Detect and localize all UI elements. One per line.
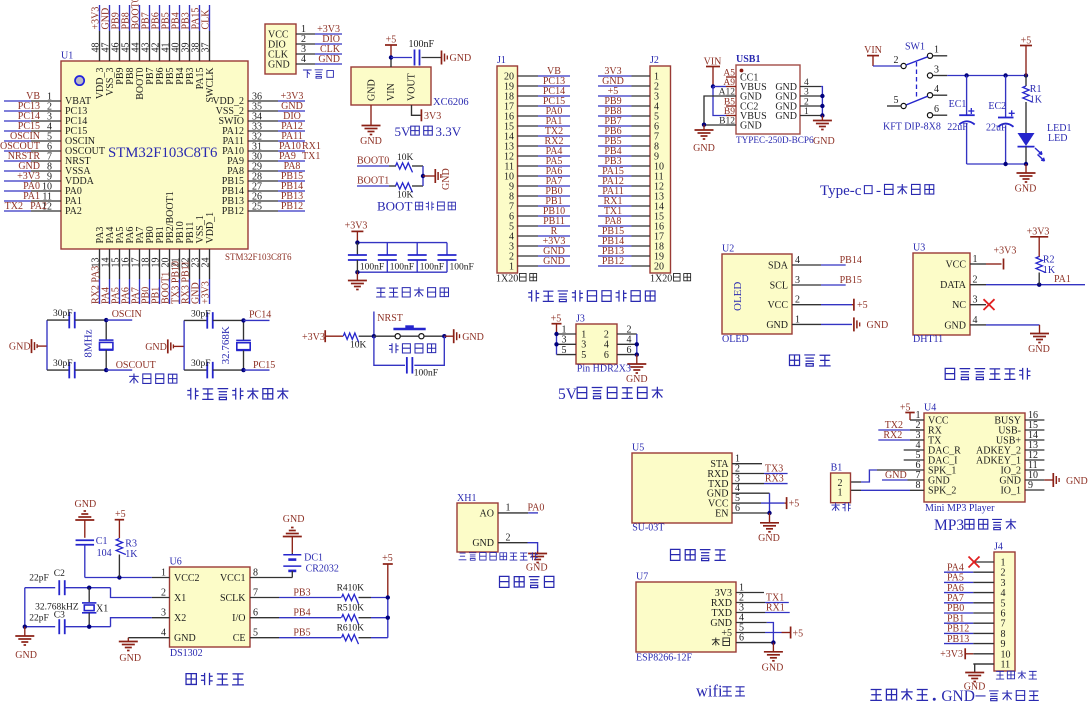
wire left vertical — [46, 320, 48, 370]
svg-text:PB5: PB5 — [293, 628, 310, 639]
ground stem J3 — [636, 355, 638, 364]
U2 pin 2 (VCC) — [767, 295, 821, 311]
svg-text:SCLK: SCLK — [220, 593, 246, 604]
svg-text:+5: +5 — [900, 403, 911, 414]
svg-text:Mini MP3 Player: Mini MP3 Player — [925, 503, 995, 514]
header J2 pin 15 (TX1) — [598, 206, 664, 222]
MCU U1 pin 1 (VBAT) with wire — [4, 91, 91, 107]
header J2 pin 3 (+5) — [598, 86, 659, 102]
svg-text:GND: GND — [762, 663, 784, 674]
capacitor 100nF #3 — [408, 243, 444, 273]
wire VIN — [390, 58, 392, 68]
MCU U1 pin 8 (VSSA) with wire — [4, 161, 91, 177]
ground stem power circuit — [1025, 164, 1027, 173]
svg-text:4: 4 — [301, 54, 306, 65]
svg-text:GND: GND — [693, 143, 715, 154]
ground stem below USB1 left — [703, 125, 705, 130]
ground symbol DHT11 — [1030, 333, 1049, 335]
MCU U1 pin 24 (VDD_1) with wire — [201, 212, 217, 304]
svg-text:30pF: 30pF — [191, 309, 211, 319]
U3 pin 3 (NC) — [952, 295, 986, 311]
svg-text:1K: 1K — [1030, 95, 1043, 106]
svg-text:PA2: PA2 — [30, 201, 47, 212]
svg-text:SPK_2: SPK_2 — [928, 485, 956, 496]
svg-text:100nF: 100nF — [360, 263, 384, 273]
svg-text:1K: 1K — [1043, 265, 1056, 276]
MCU U1 pin 4 (PC15) with wire — [4, 121, 87, 137]
MCU U1 pin 36 (VDD_2) with wire — [212, 91, 305, 107]
header J4 body — [994, 552, 1015, 671]
MCU U1 pin 44 (BOOT0) with wire — [131, 0, 147, 100]
capacitor 100nF #1 — [348, 243, 384, 273]
U7 pin 2 (RXD) — [711, 593, 744, 609]
wire PB14 — [821, 264, 846, 266]
caption 单片机最小系统 — [187, 388, 198, 400]
svg-text:KFT DIP-8X8: KFT DIP-8X8 — [883, 122, 941, 133]
svg-text:4: 4 — [973, 315, 978, 326]
ground port GND at OLED — [821, 323, 852, 325]
svg-text:3V3: 3V3 — [424, 111, 441, 122]
header J2 pin 13 (PA11) — [598, 186, 664, 202]
svg-text:3: 3 — [973, 295, 978, 306]
header J4 pin 6 (PB0) — [944, 603, 1006, 619]
ground symbol J4 — [974, 671, 976, 674]
header J2 pin 10 (PB3) — [598, 156, 664, 172]
LED1 LED — [1018, 133, 1035, 146]
wire U7 pin6 — [736, 642, 773, 644]
svg-text:5: 5 — [894, 95, 899, 106]
wire U5 TXD to RX3 — [732, 483, 764, 485]
svg-text:OLED: OLED — [722, 334, 749, 345]
ground port GND (reset) — [453, 329, 455, 343]
svg-text:CLK: CLK — [201, 9, 212, 30]
sensor U3 DHT11 body — [913, 253, 970, 335]
wire VOUT to 3V3 — [412, 105, 421, 115]
SW1 lever 5-4 — [906, 96, 928, 105]
svg-text:CE: CE — [233, 633, 246, 644]
clock chip U6 DS1302 body — [170, 567, 251, 647]
U3 pin 2 (DATA) — [940, 275, 986, 291]
svg-text:5: 5 — [562, 345, 567, 356]
power rail +5 — [947, 75, 1026, 77]
ground symbol USB1 left — [695, 129, 714, 131]
wire DHT11 GND — [986, 324, 1040, 326]
svg-text:PA2: PA2 — [65, 206, 82, 217]
svg-text:GND: GND — [15, 650, 37, 661]
svg-text:SCL: SCL — [770, 280, 788, 291]
svg-text:30pF: 30pF — [53, 309, 73, 319]
header J2 pin 19 (PB13) — [598, 246, 664, 262]
header J4 pin 3 (PA5) — [944, 573, 1006, 589]
svg-text:10K: 10K — [397, 153, 414, 163]
svg-text:RX2: RX2 — [883, 430, 902, 441]
push button (reset) — [395, 334, 400, 339]
svg-text:100nF: 100nF — [450, 263, 474, 273]
svg-text:U7: U7 — [636, 572, 648, 583]
svg-text:+5: +5 — [857, 300, 868, 311]
U4 pin 14 (USB+) — [996, 430, 1044, 446]
wire left vertical — [183, 320, 185, 370]
svg-text:1X20: 1X20 — [496, 274, 518, 285]
svg-text:GND: GND — [543, 256, 565, 267]
svg-text:VIN: VIN — [864, 45, 882, 56]
wire U4 RX to TX2 — [910, 429, 924, 431]
svg-text:C3: C3 — [54, 611, 65, 621]
svg-text:2: 2 — [795, 295, 800, 306]
ground port GND right of 100nF — [441, 51, 443, 65]
ground symbol below filter caps — [348, 280, 367, 282]
U6 pin 2 (X1) — [161, 588, 186, 604]
header J2 pin 7 (PB6) — [598, 126, 659, 142]
ground below U5 — [769, 513, 771, 522]
svg-text:10K: 10K — [350, 341, 367, 351]
header J2 pin 8 (PB5) — [598, 136, 659, 152]
svg-text:B5: B5 — [724, 98, 735, 108]
MCU U1 pin 46 (PB9) with wire — [111, 5, 127, 85]
svg-text:BOOT1: BOOT1 — [357, 176, 389, 187]
crystal 8MHz — [105, 320, 107, 340]
svg-text:100nF: 100nF — [409, 39, 435, 50]
svg-text:NC: NC — [952, 300, 966, 311]
svg-text:DC1: DC1 — [304, 553, 323, 564]
wire GND A12 B12 — [704, 96, 726, 125]
caption 语音识别 — [670, 549, 679, 560]
svg-text:5V: 5V — [395, 124, 412, 139]
svg-text:DS1302: DS1302 — [170, 648, 203, 659]
caption 触摸按键，GND一端在右侧 — [870, 690, 882, 701]
svg-text:30pF: 30pF — [191, 359, 211, 369]
connector USB1 TYPEC-250D-BCP6 body — [736, 65, 800, 134]
MCU U1 pin 22 (PB11) with wire — [181, 222, 197, 304]
svg-text:ESP8266-12F: ESP8266-12F — [636, 653, 693, 664]
U5 pin 3 (TXD) — [708, 474, 740, 490]
svg-text:R610K: R610K — [337, 624, 365, 634]
svg-text:GND: GND — [268, 59, 290, 70]
MCU U1 pin 14 (PA4) with wire — [101, 227, 117, 304]
wire PB15 — [821, 284, 846, 286]
U4 pin5 stub — [904, 459, 924, 461]
svg-text:U3: U3 — [913, 243, 925, 254]
no-connect X at DHT11 NC — [984, 299, 995, 310]
svg-text:+5: +5 — [721, 628, 732, 639]
wire +5 bus — [387, 598, 389, 638]
svg-text:Pin HDR2X3: Pin HDR2X3 — [577, 364, 631, 375]
svg-text:GND: GND — [174, 633, 196, 644]
svg-text:6: 6 — [604, 350, 609, 361]
caption 单片机引脚外引排针 — [528, 290, 539, 301]
MCU U1 pin 17 (PA7) with wire — [131, 227, 147, 304]
wire node bottom with net OSCOUT — [104, 368, 108, 372]
svg-text:1: 1 — [973, 254, 978, 265]
svg-text:GND: GND — [9, 342, 31, 353]
svg-text:37: 37 — [201, 43, 212, 53]
svg-text:3: 3 — [795, 275, 800, 286]
svg-text:1: 1 — [506, 503, 511, 514]
part value 三杯式风速传感器 — [459, 553, 467, 560]
MCU U1 pin 16 (PA6) with wire — [121, 227, 137, 304]
svg-text:AO: AO — [480, 508, 494, 519]
power port +5 at U4 VCC — [910, 419, 924, 421]
regulator U? XC6206 body — [351, 67, 431, 105]
svg-text:+5: +5 — [115, 509, 126, 520]
wire PB4 with resistor R510K — [250, 604, 388, 624]
MCU U1 pin 23 (VSS_1) with wire — [191, 215, 207, 304]
MCU U1 pin 28 (PB15) with wire — [222, 171, 305, 187]
svg-text:GND: GND — [472, 538, 494, 549]
label 触摸按键 — [996, 671, 1004, 679]
header J2 pin 20 (PB12) — [598, 256, 664, 272]
header J2 pin 17 (PB15) — [598, 226, 664, 242]
caption 温湿度传感器 — [945, 368, 954, 379]
svg-text:GND: GND — [526, 563, 548, 574]
header J1 pin 8 (PB0) — [509, 186, 570, 202]
svg-text:RX3: RX3 — [765, 474, 784, 485]
header J2 pin 18 (PB14) — [598, 236, 664, 252]
wire node top with net OSCIN — [104, 318, 108, 322]
header J1 pin 18 (PC14) — [504, 86, 570, 102]
svg-text:+3V3: +3V3 — [1027, 227, 1050, 238]
header J1 pin 17 (PC15) — [504, 96, 570, 112]
svg-text:2: 2 — [973, 275, 978, 286]
header J1 pin 12 (PA4) — [504, 146, 570, 162]
MCU U1 pin 10 (PA0) with wire — [4, 181, 82, 197]
pin-1 marker circle — [75, 76, 84, 85]
svg-text:GND: GND — [283, 514, 305, 525]
MCU U1 pin 2 (PC13) with wire — [4, 101, 87, 117]
wire U4 TX to RX2 — [910, 439, 924, 441]
svg-text:+3V3: +3V3 — [201, 281, 212, 304]
MCU U1 pin 20 (PB2/BOOT1) with wire — [161, 191, 177, 304]
header J2 pin 11 (PA15) — [598, 166, 664, 182]
MCU U1 pin 48 (VDD_3) with wire — [91, 5, 107, 99]
header J2 pin 6 (PB7) — [598, 116, 659, 132]
svg-text:PA1: PA1 — [1054, 274, 1071, 285]
svg-text:VOUT: VOUT — [407, 73, 418, 101]
U5 pin 2 (RXD) — [707, 464, 740, 480]
header J1 pin 10 (PA6) — [504, 166, 570, 182]
wire J3 left bus — [556, 334, 558, 355]
MCU U1 pin 6 (OSCOUT) with wire — [0, 141, 105, 157]
MCU U1 pin 15 (PA5) with wire — [111, 227, 127, 304]
wire J3 right bus — [636, 334, 638, 355]
SW1 pin 2 terminal — [901, 63, 906, 68]
MCU U1 pin 40 (PB4) with wire — [171, 5, 187, 85]
resistor 10K (BOOT0) — [396, 163, 413, 173]
capacitor 30pF (bottom) — [184, 369, 207, 371]
U4 pin 7 (GND) — [916, 470, 950, 486]
U4 pin 5 (DAC_I) — [916, 450, 958, 466]
USB1 pin 2 (GND) — [775, 98, 821, 113]
svg-text:OSCOUT: OSCOUT — [116, 360, 156, 371]
svg-text:GND: GND — [758, 533, 780, 544]
svg-text:VCC: VCC — [767, 300, 788, 311]
header J3 pin 3 — [557, 335, 587, 351]
svg-text:+5: +5 — [386, 35, 397, 46]
U6 pin 1 (VCC2) — [161, 568, 200, 584]
svg-text:3: 3 — [804, 88, 809, 98]
U7 pin 1 (3V3) — [715, 583, 744, 599]
header J4 pin 5 (PA7) — [944, 593, 1006, 609]
MCU U1 pin 42 (PB6) with wire — [151, 5, 167, 85]
U4 pin 10 (GND) — [999, 470, 1044, 486]
svg-text:C2: C2 — [54, 569, 65, 579]
svg-text:104: 104 — [97, 548, 112, 559]
svg-text:PC15: PC15 — [253, 360, 275, 371]
svg-text:5: 5 — [581, 350, 586, 361]
MCU U1 pin 33 (PA12) with wire — [222, 121, 305, 137]
header J1 pin 1 (GND) — [509, 256, 570, 272]
svg-text:EC1: EC1 — [949, 99, 967, 110]
svg-text:1: 1 — [509, 261, 514, 272]
MCU U1 pin 37 (SWCLK) with wire — [201, 5, 217, 103]
svg-text:USB1: USB1 — [736, 54, 760, 65]
svg-text:24: 24 — [201, 258, 212, 268]
header J1 pin 15 (PA1) — [504, 116, 570, 132]
U5 pin 4 (GND) — [707, 483, 740, 499]
header J2 pin 16 (PA8) — [598, 216, 664, 232]
svg-text:XC6206: XC6206 — [433, 97, 469, 108]
svg-text:3.3V: 3.3V — [436, 124, 462, 139]
caption 晶振电路 — [129, 374, 139, 384]
svg-text:8MHz: 8MHz — [83, 329, 95, 357]
svg-text:GND: GND — [944, 320, 966, 331]
MCU U1 pin 32 (PA11) with wire — [223, 131, 306, 147]
U6 pin 4 (GND) — [161, 628, 196, 644]
wire joining BOOT resistors — [422, 166, 424, 186]
header J4 pin 7 (PB1) — [944, 613, 1006, 629]
header J1 pin 3 (+3V3) — [509, 236, 570, 252]
ground symbol XH1 — [537, 552, 539, 554]
svg-text:X2: X2 — [174, 613, 186, 624]
header J4 pin 8 (PB12) — [944, 624, 1006, 640]
header J1 pin 4 (R) — [509, 226, 570, 242]
MCU U1 pin 34 (SWIO) with wire — [218, 111, 305, 127]
wire button to GND — [424, 335, 444, 337]
svg-text:GND: GND — [813, 136, 835, 147]
voice module U5 SU-03T body — [632, 453, 732, 523]
MCU U1 pin 43 (PB7) with wire — [141, 5, 157, 85]
MCU U1 pin 9 (VDDA) with wire — [4, 171, 95, 187]
svg-text:U1: U1 — [61, 51, 73, 62]
U5 pin 1 (STA) — [710, 454, 740, 470]
download port pin 4 (GND) — [268, 54, 342, 70]
mp3 module U4 Mini MP3 Player body — [924, 413, 1025, 502]
download port pin 3 (CLK) — [268, 44, 342, 60]
svg-text:VCC1: VCC1 — [220, 573, 246, 584]
svg-text:J3: J3 — [576, 314, 585, 325]
USB1 pin B5 (CC2) — [724, 98, 758, 113]
crystal 32.768K — [243, 320, 245, 340]
svg-text:GND: GND — [885, 470, 907, 481]
U4 pin 12 (ADKEY_1) — [976, 450, 1044, 466]
header J4 pin 9 (PB13) — [944, 634, 1006, 650]
header J2 pin 5 (PB8) — [598, 106, 659, 122]
wire right GND bus of USB1 — [821, 87, 822, 116]
svg-text:4: 4 — [934, 84, 939, 95]
svg-text:GND: GND — [1066, 476, 1088, 487]
header J2 pin 14 (RX1) — [598, 196, 664, 212]
U2 pin 3 (SCL) — [770, 275, 821, 291]
MCU U1 pin 39 (PB3) with wire — [181, 5, 197, 85]
wire U7 RXD to TX1 — [736, 602, 765, 604]
USB1 pin A9 (VBUS) — [723, 78, 766, 93]
wire VBUS A9 — [711, 84, 715, 88]
SW1 pin 5 terminal — [901, 103, 906, 108]
svg-text:NRST: NRST — [377, 313, 403, 324]
header J3 pin 5 — [557, 345, 587, 361]
ground symbol J3 — [627, 363, 646, 365]
MCU U1 pin 26 (PB13) with wire — [222, 191, 305, 207]
svg-text:R1: R1 — [1030, 84, 1042, 95]
header J4 pin 11 — [973, 660, 1010, 671]
svg-text:GND: GND — [119, 653, 141, 664]
wifi module U7 ESP8266-12F body — [636, 582, 736, 652]
caption 芯片滤波电容 — [376, 288, 386, 297]
SW1 dashed link — [916, 62, 918, 99]
svg-text:U2: U2 — [722, 244, 734, 255]
svg-text:I/O: I/O — [232, 613, 245, 624]
U6 pin 8 (VCC1) — [220, 568, 258, 584]
wire GND to crystal caps — [173, 345, 184, 347]
svg-text:1: 1 — [838, 487, 843, 498]
svg-text:GND: GND — [462, 332, 484, 343]
filter cap top rail — [357, 242, 447, 244]
svg-text:PC14: PC14 — [249, 309, 271, 320]
header J1 pin 19 (PC13) — [504, 76, 570, 92]
MCU U1 pin 7 (NRST) with wire — [4, 151, 91, 167]
U5 pin 5 (VCC) — [708, 493, 740, 509]
svg-text:11: 11 — [1001, 660, 1011, 671]
svg-text:PB12: PB12 — [222, 206, 244, 217]
header J1 pin 6 (PB10) — [509, 206, 570, 222]
ground symbol USB1 right — [813, 120, 832, 122]
svg-text:6: 6 — [934, 104, 939, 115]
svg-text:EN: EN — [715, 508, 728, 519]
USB1 pin B12 (GND) — [719, 117, 762, 132]
svg-text:+3V3: +3V3 — [940, 649, 963, 660]
svg-text:DHT11: DHT11 — [913, 334, 943, 345]
svg-text:GND: GND — [367, 79, 378, 101]
svg-text:+3V3: +3V3 — [345, 221, 368, 232]
svg-text:+5: +5 — [793, 628, 804, 639]
header J3 pin 1 — [557, 324, 587, 340]
ground symbol U6 pin4 — [119, 641, 138, 643]
connector XH1 body — [457, 503, 498, 552]
U4 pin 16 (BUSY) — [994, 410, 1044, 426]
svg-text:GND: GND — [775, 111, 797, 122]
ground symbol power circuit — [1017, 172, 1036, 174]
capacitor 100nF #2 — [378, 243, 414, 273]
svg-text:MP3: MP3 — [934, 517, 964, 534]
svg-text:C1: C1 — [96, 536, 108, 547]
svg-text:100nF: 100nF — [390, 263, 414, 273]
svg-text:+3V3: +3V3 — [302, 332, 325, 343]
svg-text:+5: +5 — [789, 499, 800, 510]
svg-text:1K: 1K — [125, 549, 138, 560]
MCU U1 pin 11 (PA1) with wire — [4, 191, 82, 207]
U2 pin 4 (SDA) — [768, 255, 821, 271]
caption 风速检测 — [499, 576, 508, 587]
svg-text:100nF: 100nF — [414, 369, 438, 379]
header J1 pin 2 (GND) — [509, 246, 570, 262]
svg-text:B1: B1 — [831, 463, 843, 474]
capacitor 30pF (bottom) — [47, 369, 70, 371]
SW1 pin 1 terminal — [927, 53, 932, 58]
U7 pin 5 (+5) — [721, 623, 744, 639]
svg-text:GND: GND — [626, 374, 648, 385]
svg-text:22pF: 22pF — [29, 574, 49, 584]
svg-text:XH1: XH1 — [457, 493, 476, 504]
